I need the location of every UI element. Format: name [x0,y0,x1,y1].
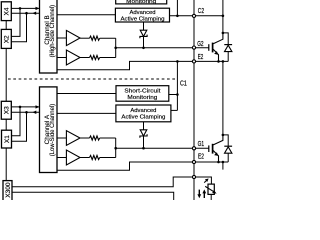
wire gate join A [115,138,117,158]
TVS clamp diode B [140,22,147,49]
node X3 lower junction [25,111,28,114]
wire X2 upper riser [11,8,20,36]
svg-text:Active Clamping: Active Clamping [121,114,165,120]
wire clamping A to C1 line [171,109,178,111]
node monitor A [176,93,179,96]
svg-text:Advanced: Advanced [130,108,156,114]
node C2 rail [222,15,225,18]
node clamp B [176,15,179,18]
dashed separator [8,78,177,80]
wire X300 bus upper [12,177,192,187]
wire X300 bus lower [12,192,174,201]
svg-text:G2: G2 [197,39,203,48]
thermal coupling arrows [197,189,206,198]
connector X3 [1,101,11,119]
node gate B [114,47,117,50]
wire X3-X1 link [5,119,7,130]
wire terminal column [193,0,195,201]
wire X2-X3 link [5,48,7,101]
driver amp A2 [57,150,80,165]
svg-text:X4: X4 [4,7,11,15]
transistor Q2 (top IGBT) [209,32,224,62]
arrow out of Channel B [32,12,36,15]
wire monitoring A to C1 line [169,94,178,96]
wire X3 lower to Channel A [11,111,39,113]
node E2 sense [176,60,179,63]
wire X1 lower riser [12,112,27,141]
wire monitor B up [176,0,178,16]
wire gate join B [115,38,117,57]
svg-text:Monitoring: Monitoring [127,95,157,101]
node emitter Q1 [217,161,220,164]
node E1 power [222,161,225,164]
block Short-Circuit Monitoring A [116,86,169,102]
connector X300 [3,181,12,202]
terminal C2 [192,14,195,17]
wire C2 rail up [222,0,224,33]
svg-text:X3: X3 [4,106,11,114]
diode D1 (freewheel bottom) [223,135,232,162]
wire E2 to C1 power [222,61,224,134]
wire emitter sense B [57,61,228,69]
wire X4-X2 link [5,21,7,30]
svg-text:X300: X300 [5,182,12,198]
wire X2 lower riser [11,13,26,42]
block Channel B (High-Side Channel) [40,0,58,73]
block Advanced Active Clamping A [116,105,171,122]
node gate A [114,147,117,150]
arrow into Channel B [36,7,40,10]
svg-text:X2: X2 [4,35,11,43]
node X3 upper junction [19,106,22,109]
svg-text:(High-Side Channel): (High-Side Channel) [49,5,56,58]
wire X3 upper to Channel A [11,106,39,108]
svg-text:(Low-Side Channel): (Low-Side Channel) [49,104,56,157]
driver amp B2 [57,50,80,65]
svg-text:Advanced: Advanced [130,10,156,16]
wire gate B to G2 [116,47,209,49]
arrow into Channel A [36,105,40,108]
svg-text:Short-Circuit: Short-Circuit [124,89,160,95]
wire Channel B to clamping box [57,14,115,16]
connector X4 [1,2,11,21]
wire X4 upper to Channel B [11,7,39,9]
svg-text:Active Clamping: Active Clamping [121,17,165,23]
svg-text:C1: C1 [180,78,187,87]
svg-text:Monitoring: Monitoring [126,0,156,5]
wire X1-X300 link [5,148,7,181]
node E2 power [222,60,225,63]
gate resistor A1 [80,136,116,140]
connector X2 [1,29,11,48]
terminal NTC [192,175,195,178]
TVS clamp diode A [140,122,147,150]
wire clamping B to C2 [170,15,223,17]
block Channel A (Low-Side Channel) [40,87,58,173]
terminal G2 [192,46,195,49]
block Short-Circuit Monitoring B (cut) [116,0,167,5]
wire E1 stub [222,162,224,170]
transistor Q1 (bottom IGBT) [209,134,224,162]
terminal E1 [192,160,195,163]
wire C1 sense vertical [176,61,178,110]
wire gate A to G1 [116,147,209,149]
node emitter Q2 [217,60,220,63]
diode D2 (freewheel top) [223,33,232,62]
wire X4 lower to Channel B [11,12,39,14]
svg-text:E2: E2 [198,152,204,161]
wire emitter sense A [57,162,228,170]
connector X1 [2,130,12,148]
svg-text:C2: C2 [198,6,204,15]
driver amp A1 [57,131,80,146]
node X4 upper junction [19,7,22,10]
gate resistor B1 [80,36,116,40]
svg-text:X1: X1 [4,135,11,143]
svg-text:E2: E2 [198,52,204,61]
block Advanced Active Clamping B [115,8,169,22]
svg-text:G1: G1 [198,139,205,148]
gate resistor A2 [80,155,116,159]
wire X1 upper riser [12,107,21,136]
node X4 lower junction [25,12,28,15]
arrow out of Channel A [32,111,36,114]
terminal G1 [192,147,195,150]
wire NTC top [196,177,211,184]
wire Channel A to monitoring [57,93,116,95]
thermistor NTC [204,179,216,202]
terminal E2 [192,60,195,63]
wire Channel A to clamping [57,112,116,114]
gate resistor B2 [80,55,116,59]
driver amp B1 [57,30,80,45]
